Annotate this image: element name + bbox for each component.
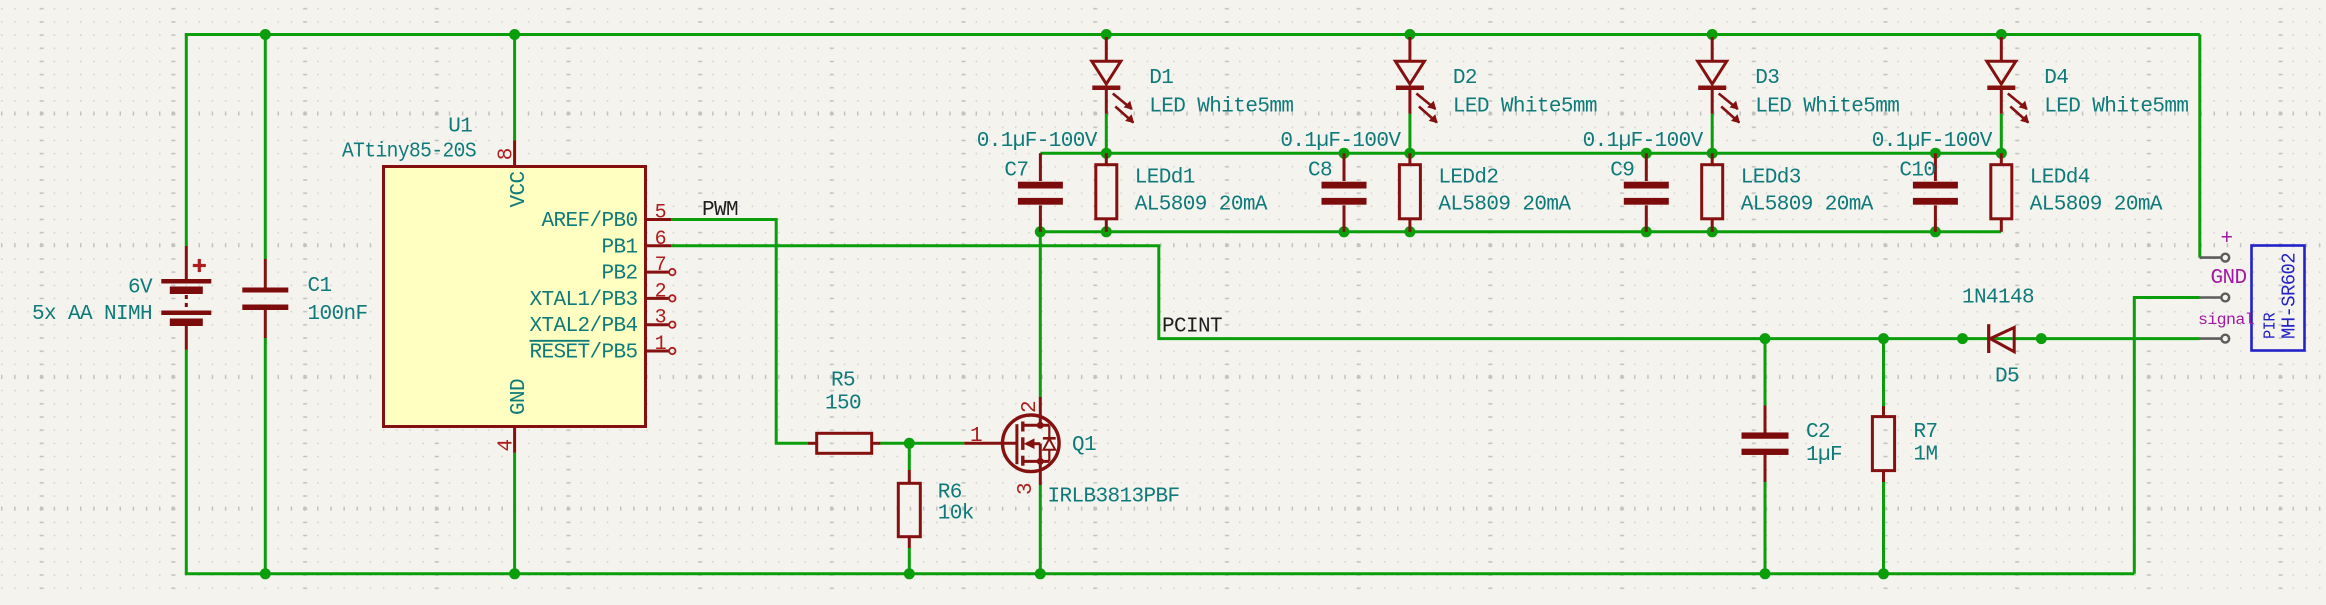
- svg-text:AL5809 20mA: AL5809 20mA: [1438, 194, 1571, 217]
- svg-text:1µF: 1µF: [1806, 444, 1842, 467]
- resistor R5 150: [808, 433, 880, 453]
- wire C2 bottom: [1764, 482, 1767, 574]
- svg-text:ATtiny85-20S: ATtiny85-20S: [342, 141, 476, 164]
- junction: [1707, 29, 1718, 40]
- wire U1 VCC: [513, 35, 516, 141]
- junction: [904, 438, 915, 449]
- junction: [1101, 29, 1112, 40]
- pin 5 AREF/PB0: [646, 218, 672, 221]
- pin 3 XTAL2/PB4: [646, 323, 670, 326]
- op-amp U1 ATtiny85-20S body: [384, 167, 646, 427]
- svg-text:LEDd2: LEDd2: [1438, 167, 1498, 190]
- svg-text:XTAL1/PB3: XTAL1/PB3: [529, 289, 637, 312]
- svg-text:0.1µF-100V: 0.1µF-100V: [977, 130, 1098, 153]
- RESET overline: [530, 340, 590, 342]
- wire through D5: [1963, 337, 2042, 340]
- regulator LEDd2 AL5809 20mA: [1399, 153, 1420, 232]
- wire regulator bottom rail: [1040, 230, 2001, 233]
- junction: [1996, 148, 2007, 159]
- junction: [1404, 148, 1415, 159]
- svg-text:signal: signal: [2198, 311, 2254, 329]
- svg-text:PB1: PB1: [601, 236, 637, 259]
- svg-text:Q1: Q1: [1072, 434, 1096, 457]
- LED D1 LED White5mm: [1092, 37, 1134, 123]
- junction: [2036, 333, 2047, 344]
- svg-text:GND: GND: [2211, 267, 2247, 290]
- svg-text:AL5809 20mA: AL5809 20mA: [1741, 194, 1874, 217]
- junction: [1404, 29, 1415, 40]
- svg-text:D3: D3: [1755, 67, 1779, 90]
- junction: [1404, 226, 1415, 237]
- junction: [1760, 568, 1771, 579]
- wire LED D3 cathode: [1711, 114, 1714, 153]
- svg-text:C7: C7: [1004, 160, 1028, 183]
- LED D4 LED White5mm: [1987, 37, 2029, 123]
- svg-text:MH-SR602: MH-SR602: [2279, 253, 2301, 339]
- junction: [1760, 333, 1771, 344]
- transistor Q1 IRLB3813PBF: [964, 397, 1059, 485]
- svg-text:1M: 1M: [1914, 444, 1938, 467]
- resistor R6 10k: [898, 470, 920, 548]
- svg-text:GND: GND: [508, 379, 531, 415]
- pin 2 XTAL1/PB3: [646, 297, 670, 300]
- capacitor C1 100nF: [242, 259, 288, 338]
- junction: [1035, 226, 1046, 237]
- svg-text:PB2: PB2: [601, 263, 637, 286]
- svg-text:XTAL2/PB4: XTAL2/PB4: [529, 315, 637, 338]
- capacitor C8 0.1uF-100V: [1322, 153, 1367, 232]
- svg-text:PCINT: PCINT: [1162, 316, 1222, 339]
- wire R5 to R6 junction to Q1 gate: [880, 442, 965, 445]
- wire PCINT diode to PIR signal: [2041, 337, 2199, 340]
- svg-text:PWM: PWM: [702, 199, 738, 222]
- capacitor C2 1uF: [1742, 406, 1789, 483]
- svg-text:R6: R6: [938, 482, 962, 505]
- svg-text:VCC: VCC: [508, 171, 531, 207]
- junction: [1996, 29, 2007, 40]
- svg-text:C1: C1: [308, 275, 332, 298]
- wire C1 top: [264, 35, 267, 260]
- svg-text:150: 150: [825, 393, 861, 416]
- diode D5 1N4148: [1989, 324, 2015, 353]
- wire R7 bottom: [1882, 482, 1885, 574]
- svg-text:AL5809 20mA: AL5809 20mA: [1135, 194, 1268, 217]
- pin 6 PB1: [646, 244, 672, 247]
- svg-text:LEDd4: LEDd4: [2030, 167, 2090, 190]
- svg-text:C9: C9: [1610, 160, 1634, 183]
- wire C2 top: [1764, 339, 1767, 406]
- svg-text:1N4148: 1N4148: [1962, 287, 2034, 310]
- wire PIR GND to ground bus: [2134, 298, 2199, 574]
- wire PB1 net pin6 to PCINT: [671, 246, 1963, 339]
- pin + of PIR: [2200, 256, 2222, 259]
- regulator LEDd4 AL5809 20mA: [1991, 153, 2012, 232]
- junction: [1641, 226, 1652, 237]
- junction: [1930, 148, 1941, 159]
- svg-text:D4: D4: [2044, 67, 2068, 90]
- svg-text:AREF/PB0: AREF/PB0: [541, 210, 637, 233]
- svg-text:AL5809 20mA: AL5809 20mA: [2030, 194, 2163, 217]
- junction: [509, 568, 520, 579]
- svg-text:D2: D2: [1453, 67, 1477, 90]
- svg-text:6V: 6V: [128, 277, 153, 300]
- wire LED D4 cathode: [2000, 114, 2003, 153]
- junction: [1930, 226, 1941, 237]
- svg-text:LED White5mm: LED White5mm: [1755, 96, 1899, 119]
- pin GND of PIR: [2200, 296, 2222, 299]
- wire C1 bottom: [264, 338, 267, 574]
- svg-text:4: 4: [496, 439, 519, 451]
- svg-text:3: 3: [655, 307, 666, 330]
- capacitor C10 0.1uF-100V: [1913, 153, 1958, 232]
- svg-text:0.1µF-100V: 0.1µF-100V: [1872, 130, 1993, 153]
- svg-text:5: 5: [655, 202, 666, 225]
- svg-text:C2: C2: [1806, 421, 1830, 444]
- LED D2 LED White5mm: [1395, 37, 1437, 123]
- svg-text:R7: R7: [1914, 421, 1938, 444]
- wire top bus to PIR plus pin: [2198, 35, 2201, 258]
- svg-text:6: 6: [655, 228, 666, 251]
- pin 4 GND: [513, 427, 516, 453]
- pin signal of PIR: [2200, 337, 2222, 340]
- pin 8 VCC: [513, 141, 516, 167]
- pin 1 RESET/PB5: [646, 350, 670, 353]
- junction: [904, 568, 915, 579]
- svg-text:LEDd1: LEDd1: [1135, 167, 1195, 190]
- svg-text:LED White5mm: LED White5mm: [2044, 96, 2188, 119]
- wire LED D2 cathode: [1408, 114, 1411, 153]
- resistor R7 1M: [1872, 406, 1894, 482]
- svg-text:LEDd3: LEDd3: [1741, 167, 1801, 190]
- wire VCC top bus: [185, 33, 2200, 36]
- wire bottom ground bus: [185, 572, 2135, 575]
- junction: [1339, 226, 1350, 237]
- svg-text:0.1µF-100V: 0.1µF-100V: [1280, 130, 1401, 153]
- wire R6 bottom: [908, 548, 911, 574]
- junction: [1878, 568, 1889, 579]
- svg-text:D1: D1: [1149, 67, 1173, 90]
- junction: [1101, 148, 1112, 159]
- wire left rail battery top: [185, 35, 188, 247]
- regulator LEDd3 AL5809 20mA: [1702, 153, 1723, 232]
- connector PIR MH-SR602: [2252, 246, 2305, 351]
- junction: [1035, 568, 1046, 579]
- svg-text:R5: R5: [831, 370, 855, 393]
- junction: [1641, 148, 1652, 159]
- svg-text:100nF: 100nF: [308, 303, 368, 326]
- svg-text:LED White5mm: LED White5mm: [1149, 96, 1293, 119]
- svg-text:1: 1: [970, 425, 982, 448]
- wire U1 GND: [513, 453, 516, 574]
- svg-text:0.1µF-100V: 0.1µF-100V: [1583, 130, 1704, 153]
- svg-text:3: 3: [1015, 483, 1038, 495]
- svg-text:LED White5mm: LED White5mm: [1453, 96, 1597, 119]
- wire R7 top: [1882, 339, 1885, 406]
- svg-text:1: 1: [655, 333, 667, 356]
- svg-text:+: +: [2220, 228, 2232, 251]
- svg-text:C8: C8: [1308, 160, 1332, 183]
- svg-text:IRLB3813PBF: IRLB3813PBF: [1048, 486, 1180, 509]
- junction: [509, 29, 520, 40]
- wire PWM net pin5 to R5: [671, 220, 809, 444]
- wire Q1 drain column: [1039, 232, 1042, 397]
- svg-text:7: 7: [655, 254, 666, 277]
- junction: [1957, 333, 1968, 344]
- svg-text:2: 2: [655, 280, 666, 303]
- junction: [1707, 226, 1718, 237]
- junction: [260, 568, 271, 579]
- battery BT 6V 5x AA NIMH: [161, 246, 211, 350]
- LED D3 LED White5mm: [1698, 37, 1740, 123]
- junction: [1339, 148, 1350, 159]
- capacitor C7 0.1uF-100V: [1018, 153, 1063, 232]
- svg-text:U1: U1: [448, 116, 472, 139]
- wire battery bottom to ground bus: [185, 350, 188, 574]
- junction: [1101, 226, 1112, 237]
- wire LED D1 cathode: [1105, 114, 1108, 153]
- svg-text:2: 2: [1019, 401, 1042, 413]
- svg-text:RESET/PB5: RESET/PB5: [529, 342, 637, 365]
- svg-text:8: 8: [496, 148, 519, 160]
- capacitor C9 0.1uF-100V: [1624, 153, 1669, 232]
- wire LED cathode rail: [1040, 152, 2001, 155]
- junction: [260, 29, 271, 40]
- wire R6 top: [908, 443, 911, 470]
- wire Q1 source to ground bus: [1039, 485, 1042, 574]
- svg-text:10k: 10k: [938, 503, 974, 526]
- junction: [1878, 333, 1889, 344]
- svg-text:D5: D5: [1995, 366, 2019, 389]
- junction: [1707, 148, 1718, 159]
- pin 7 PB2: [646, 271, 670, 274]
- svg-text:5x AA NIMH: 5x AA NIMH: [32, 303, 152, 326]
- regulator LEDd1 AL5809 20mA: [1096, 153, 1117, 232]
- svg-text:C10: C10: [1899, 160, 1935, 183]
